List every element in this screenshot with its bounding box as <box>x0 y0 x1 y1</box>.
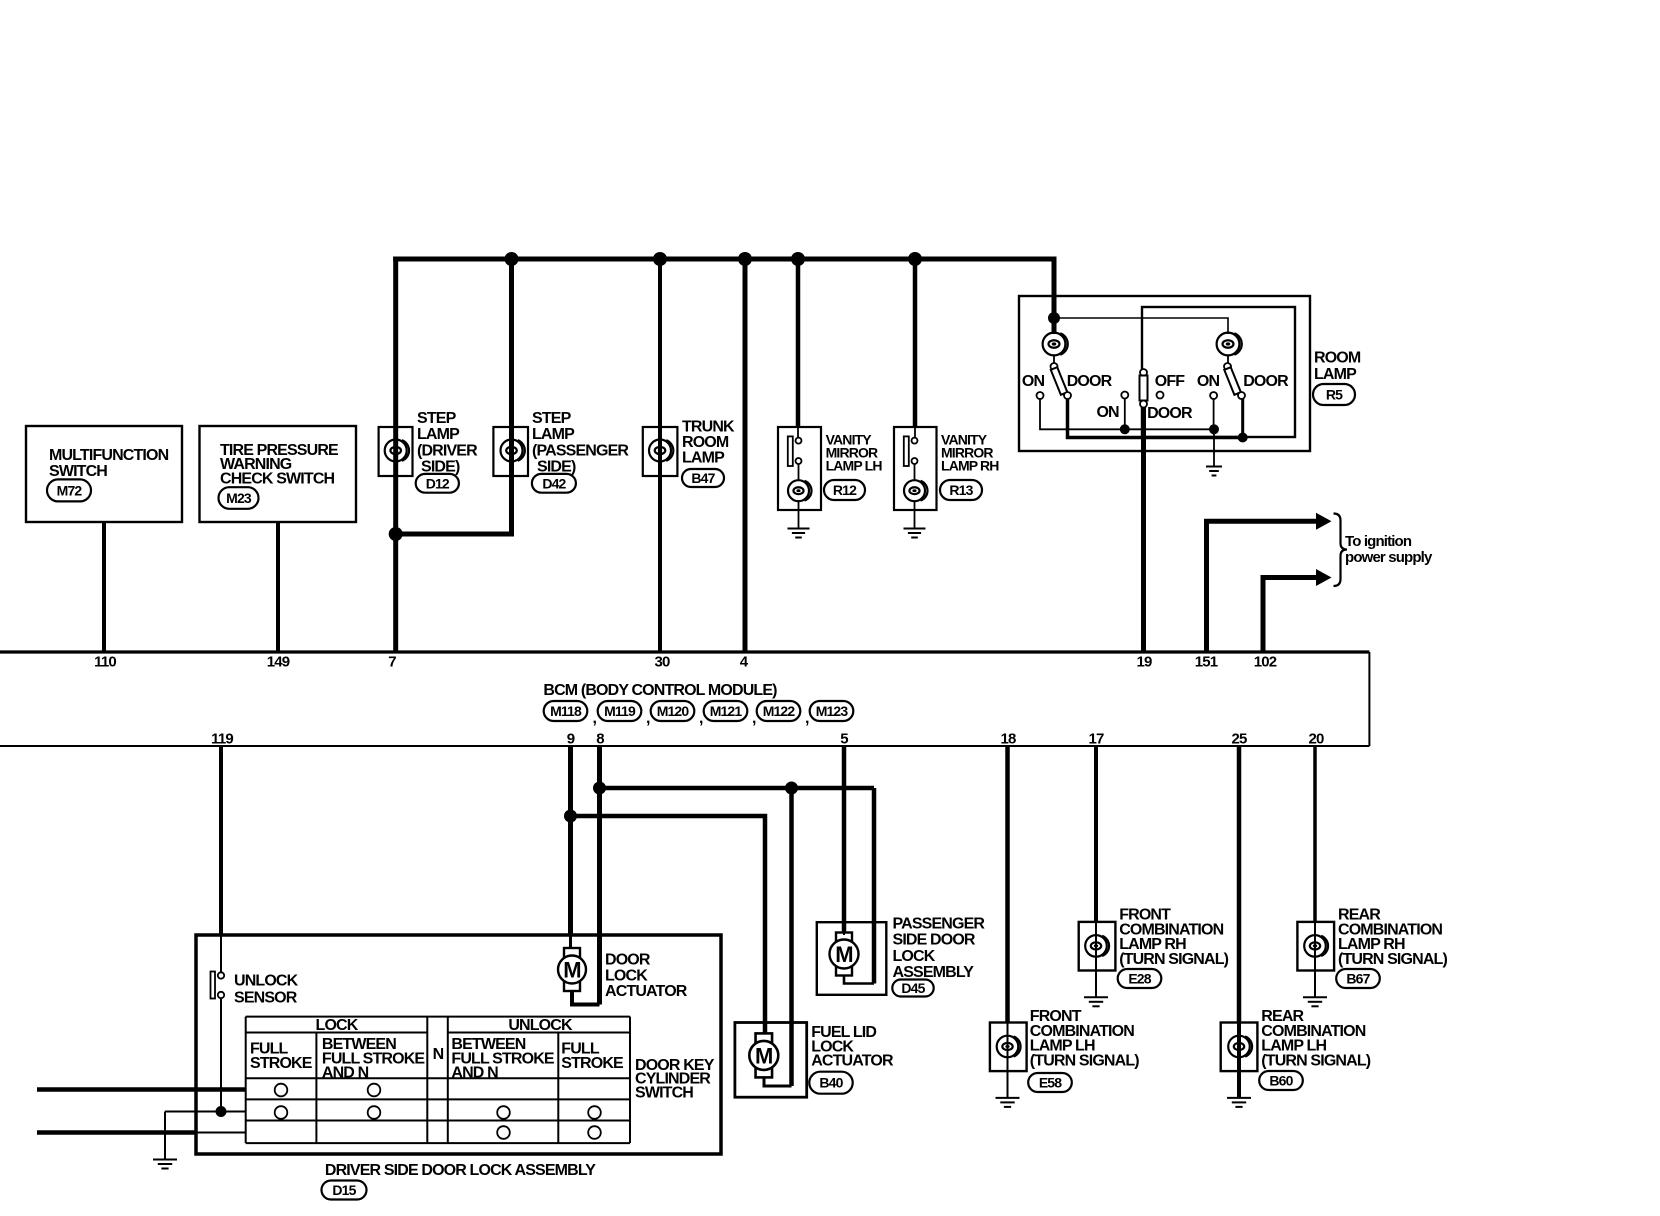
switch contact R12 <box>797 427 799 438</box>
svg-text:To ignition: To ignition <box>1345 533 1412 550</box>
svg-text:LAMP: LAMP <box>1314 366 1357 383</box>
wire B67 to ground <box>1314 971 1316 998</box>
connector label B47 <box>682 469 724 487</box>
wire bus to BCM pin 4 <box>743 257 748 653</box>
svg-text:UNLOCK: UNLOCK <box>234 973 299 990</box>
ground B67 <box>1303 996 1327 998</box>
driver side door lock assembly D15 box <box>196 935 721 1154</box>
switch contact R13 <box>914 427 916 438</box>
lamp bulb R12 <box>788 480 809 501</box>
svg-text:BCM (BODY CONTROL MODULE): BCM (BODY CONTROL MODULE) <box>543 682 777 699</box>
arrowhead ignition 2 <box>1316 569 1332 586</box>
svg-text:DOOR: DOOR <box>605 952 651 969</box>
ground driver door lock <box>153 1159 177 1161</box>
svg-text:,: , <box>752 710 756 727</box>
connector label D12 <box>416 474 459 493</box>
fuel lid motor <box>763 1023 765 1035</box>
svg-text:DOOR: DOOR <box>1067 373 1113 390</box>
wire bus to vanity mirror lamp RH <box>913 257 918 428</box>
wire bus to vanity mirror lamp LH <box>796 257 801 428</box>
svg-text:DRIVER SIDE DOOR LOCK ASSEMBLY: DRIVER SIDE DOOR LOCK ASSEMBLY <box>325 1162 596 1179</box>
wire into unlock sensor <box>220 935 222 972</box>
node junction room lamp feed <box>1048 312 1060 324</box>
wire R13 to ground <box>914 501 916 529</box>
wire BCM pin 151 to ignition power supply <box>1207 521 1318 652</box>
ground R13 <box>904 528 926 530</box>
switch left ON contact <box>1037 392 1044 399</box>
lamp bulb E28 <box>1095 922 1097 971</box>
rear combination lamp RH B67 box <box>1297 922 1334 971</box>
lamp bulb room left <box>1043 333 1066 356</box>
switch middle lever <box>1140 376 1148 401</box>
svg-text:20: 20 <box>1309 731 1324 748</box>
switch right DOOR contact <box>1238 392 1245 399</box>
ground room lamp <box>1206 466 1222 468</box>
svg-text:LAMP: LAMP <box>417 426 460 443</box>
wire room lamp to ground <box>1213 429 1215 466</box>
connector label D15 <box>322 1181 367 1200</box>
switch middle pivot <box>1140 369 1147 376</box>
svg-text:SWITCH: SWITCH <box>635 1084 693 1101</box>
node junction middle ON <box>1120 424 1130 434</box>
svg-text:19: 19 <box>1137 654 1152 671</box>
svg-text:LOCK: LOCK <box>893 948 936 965</box>
svg-text:R12: R12 <box>833 482 857 498</box>
node junction ground rail <box>1209 424 1219 434</box>
BCM body control module band <box>0 650 1369 653</box>
svg-text:CHECK SWITCH: CHECK SWITCH <box>220 470 335 487</box>
svg-text:LAMP: LAMP <box>682 450 725 467</box>
wire BCM to front combination lamp RH E28 <box>1094 746 1098 922</box>
svg-text:M122: M122 <box>763 703 796 719</box>
lamp bulb E58 <box>1007 1023 1009 1072</box>
ground E58 <box>996 1097 1020 1099</box>
svg-text:151: 151 <box>1195 654 1218 671</box>
switch left DOOR contact <box>1064 392 1071 399</box>
wire left bulb to left switch <box>1053 355 1055 363</box>
wire D42 output to junction <box>396 532 512 537</box>
svg-text:(TURN SIGNAL): (TURN SIGNAL) <box>1030 1052 1139 1069</box>
svg-text:B47: B47 <box>691 470 715 486</box>
ground E28 <box>1084 996 1108 998</box>
svg-text:LAMP LH: LAMP LH <box>826 458 883 474</box>
wire E28 to ground <box>1095 971 1097 998</box>
lamp bulb D42 <box>501 440 523 462</box>
svg-text:SWITCH: SWITCH <box>49 463 107 480</box>
svg-text:M23: M23 <box>226 490 252 506</box>
svg-text:102: 102 <box>1254 654 1277 671</box>
room lamp R5 outer box <box>1019 296 1310 451</box>
wire BCM to rear combination lamp RH B67 <box>1313 746 1317 922</box>
node junction D12/D42 outputs <box>389 527 403 541</box>
svg-text:,: , <box>593 710 597 727</box>
wire room lamp to BCM pin 19 <box>1141 408 1146 653</box>
connector label R5 <box>1313 384 1355 405</box>
svg-text:SENSOR: SENSOR <box>234 990 298 1007</box>
front combination lamp RH E28 box <box>1079 922 1116 971</box>
door lock actuator driver <box>568 746 573 936</box>
svg-text:(TURN SIGNAL): (TURN SIGNAL) <box>1338 951 1447 968</box>
svg-text:R5: R5 <box>1326 387 1343 403</box>
node junction bus/B47 <box>653 252 667 266</box>
node junction bus/R13 <box>908 252 922 266</box>
svg-text:B60: B60 <box>1269 1073 1293 1089</box>
switch middle OFF contact <box>1157 392 1164 399</box>
svg-text:AND N: AND N <box>322 1065 369 1082</box>
svg-text:ON: ON <box>1096 404 1119 421</box>
svg-text:M119: M119 <box>604 703 636 719</box>
switch middle bottom contact <box>1140 401 1147 408</box>
svg-text:(PASSENGER: (PASSENGER <box>532 442 629 459</box>
svg-text:7: 7 <box>388 654 396 671</box>
switch right ON contact <box>1210 392 1217 399</box>
svg-text:17: 17 <box>1089 731 1104 748</box>
connector label M123 <box>810 701 854 721</box>
switch left lever <box>1051 367 1068 395</box>
svg-text:,: , <box>646 710 650 727</box>
wire pin8 branch to passenger assembly <box>600 786 875 791</box>
svg-text:LOCK: LOCK <box>316 1017 359 1034</box>
wire BCM to front combination lamp LH E58 <box>1005 746 1010 1023</box>
svg-text:(TURN SIGNAL): (TURN SIGNAL) <box>1119 951 1228 968</box>
connector label M72 <box>47 479 91 501</box>
wire motor return to pin8 branch <box>844 976 874 984</box>
node junction bus/pin4 <box>738 252 752 266</box>
svg-text:DOOR: DOOR <box>1243 373 1289 390</box>
fuel lid lock actuator B40 box <box>735 1023 807 1098</box>
room lamp inner box <box>1142 307 1295 437</box>
connector label M119 <box>598 701 642 721</box>
node junction fuel lid return <box>785 782 798 795</box>
wire row2 feed with ground <box>165 1111 246 1113</box>
wire R12 switch to bulb <box>798 464 800 481</box>
svg-text:,: , <box>805 710 809 727</box>
wire R12 to ground <box>798 501 800 529</box>
svg-text:M72: M72 <box>57 482 83 498</box>
passenger side door lock assembly D45 box <box>817 922 887 995</box>
svg-text:M120: M120 <box>657 703 690 719</box>
door key cylinder switch table <box>246 1016 630 1018</box>
connector label M23 <box>219 487 259 509</box>
svg-text:8: 8 <box>596 731 604 748</box>
connector label D45 <box>892 980 933 997</box>
wire DOOR contacts rail <box>1068 399 1243 438</box>
switch right lever <box>1224 367 1241 395</box>
node junction pin9 branch <box>564 810 577 823</box>
svg-text:D15: D15 <box>332 1182 356 1198</box>
svg-text:(DRIVER: (DRIVER <box>417 442 478 459</box>
ground R12 <box>788 528 810 530</box>
connector label B40 <box>809 1072 852 1094</box>
rear combination lamp LH B60 box <box>1221 1023 1258 1072</box>
connector label M122 <box>757 701 801 721</box>
svg-text:110: 110 <box>94 654 116 671</box>
svg-text:OFF: OFF <box>1155 373 1186 390</box>
svg-text:ON: ON <box>1197 373 1220 390</box>
svg-text:5: 5 <box>840 731 848 748</box>
svg-text:119: 119 <box>211 731 233 748</box>
lamp bulb B60 <box>1237 1023 1241 1072</box>
svg-text:149: 149 <box>267 654 290 671</box>
svg-text:,: , <box>699 710 703 727</box>
wire BCM pin 102 to ignition power supply <box>1263 578 1317 653</box>
wire unlock sensor to table <box>220 998 222 1112</box>
svg-text:M: M <box>755 1043 772 1068</box>
vanity mirror lamp RH R13 box <box>894 427 937 510</box>
wire bus through trunk room lamp B47 to pin 30 <box>658 257 662 653</box>
wire BCM to rear combination lamp LH B60 <box>1237 746 1242 1023</box>
wire bus through step lamp D12 down to pin 7 <box>393 257 398 653</box>
wire lock row1 feed <box>37 1087 246 1092</box>
vanity mirror lamp LH R12 box <box>778 427 821 510</box>
table contact circles <box>275 1084 288 1097</box>
svg-text:ROOM: ROOM <box>1314 350 1361 367</box>
svg-text:R13: R13 <box>949 482 973 498</box>
lamp bulb B67 <box>1314 922 1316 971</box>
node junction bus/R12 <box>791 252 805 266</box>
wire M23 to BCM pin 149 <box>276 522 280 652</box>
lamp bulb R13 <box>904 480 925 501</box>
svg-text:30: 30 <box>655 654 670 671</box>
svg-text:AND N: AND N <box>451 1065 498 1082</box>
svg-text:M121: M121 <box>710 703 743 719</box>
svg-text:E58: E58 <box>1039 1075 1062 1091</box>
svg-text:STROKE: STROKE <box>561 1055 624 1072</box>
svg-text:M: M <box>835 942 852 967</box>
wire B60 to ground <box>1237 1071 1241 1098</box>
door lock motor passenger <box>843 932 845 935</box>
connector label R12 <box>824 480 865 500</box>
step lamp passenger side D42 box <box>493 427 528 476</box>
switch middle ON contact <box>1121 392 1128 399</box>
svg-text:ROOM: ROOM <box>682 434 729 451</box>
multifunction switch M72 box <box>26 426 182 522</box>
switch left pivot <box>1051 363 1058 370</box>
wire room-lamp feed drop <box>1052 257 1057 335</box>
node junction pin8 branch <box>593 782 606 795</box>
wire row3 feed <box>37 1130 196 1135</box>
lamp bulb room right <box>1217 333 1240 356</box>
svg-text:E28: E28 <box>1128 971 1151 987</box>
svg-text:M: M <box>563 957 580 982</box>
connector label M118 <box>544 701 588 721</box>
svg-text:(TURN SIGNAL): (TURN SIGNAL) <box>1261 1052 1370 1069</box>
svg-text:UNLOCK: UNLOCK <box>508 1017 573 1034</box>
connector label B60 <box>1259 1071 1303 1090</box>
svg-text:B67: B67 <box>1346 971 1370 987</box>
svg-text:M118: M118 <box>550 703 582 719</box>
svg-text:ACTUATOR: ACTUATOR <box>605 983 688 1000</box>
svg-text:M123: M123 <box>816 703 849 719</box>
svg-text:ON: ON <box>1022 373 1045 390</box>
connector label B67 <box>1336 969 1380 988</box>
switch right pivot <box>1224 363 1231 370</box>
svg-text:LAMP: LAMP <box>532 426 575 443</box>
svg-text:STEP: STEP <box>417 410 457 427</box>
tire pressure warning check switch M23 box <box>200 426 357 522</box>
wire R13 switch to bulb <box>914 464 916 481</box>
brace ignition <box>1334 514 1348 587</box>
wire room lamp feed to right bulb <box>1054 318 1228 334</box>
wire M72 to BCM pin 110 <box>102 522 106 652</box>
lamp bulb B47 <box>649 440 671 462</box>
svg-text:PASSENGER: PASSENGER <box>893 916 986 933</box>
connector label R13 <box>940 480 982 500</box>
svg-text:SIDE DOOR: SIDE DOOR <box>893 932 976 949</box>
svg-text:STROKE: STROKE <box>250 1055 313 1072</box>
wire right bulb to right switch <box>1227 355 1229 363</box>
svg-text:N: N <box>433 1046 444 1063</box>
svg-text:power supply: power supply <box>1345 549 1433 566</box>
connector label M121 <box>704 701 748 721</box>
svg-text:18: 18 <box>1001 731 1016 748</box>
node junction DOOR rail <box>1238 433 1248 443</box>
ground B60 <box>1227 1097 1251 1099</box>
wire fuel lid return <box>764 1078 792 1087</box>
connector label E58 <box>1028 1073 1072 1092</box>
connector label E28 <box>1118 969 1162 988</box>
wire top power bus <box>393 257 1056 262</box>
svg-text:MULTIFUNCTION: MULTIFUNCTION <box>49 447 169 464</box>
svg-text:STEP: STEP <box>532 410 572 427</box>
front combination lamp LH E58 box <box>990 1023 1027 1072</box>
svg-text:D45: D45 <box>901 980 925 996</box>
trunk room lamp B47 box <box>643 427 678 476</box>
node junction sensor/table row2 <box>216 1106 227 1117</box>
svg-text:B40: B40 <box>819 1075 843 1091</box>
svg-text:LAMP RH: LAMP RH <box>941 458 999 474</box>
wire BCM pin 5 to passenger door lock <box>842 746 847 932</box>
svg-text:D42: D42 <box>542 475 566 491</box>
node junction bus/D42 <box>505 252 519 266</box>
svg-text:9: 9 <box>567 731 575 748</box>
svg-text:DOOR: DOOR <box>1147 405 1193 422</box>
svg-text:TRUNK: TRUNK <box>682 419 735 436</box>
wire E58 to ground <box>1007 1071 1009 1098</box>
wire actuator to pin 8 wire <box>572 991 600 1005</box>
connector label M120 <box>651 701 695 721</box>
svg-text:ACTUATOR: ACTUATOR <box>811 1053 894 1070</box>
wire BCM pin 119 to driver door lock assembly <box>219 746 223 935</box>
wire pin9 branch to fuel lid actuator <box>571 816 766 1033</box>
svg-text:D12: D12 <box>426 475 450 491</box>
wire ON contacts to ground rail <box>1040 399 1214 429</box>
svg-text:25: 25 <box>1232 731 1247 748</box>
unlock sensor <box>211 972 216 999</box>
connector label D42 <box>532 474 576 493</box>
arrowhead ignition 1 <box>1316 513 1332 530</box>
lamp bulb D12 <box>385 440 407 462</box>
step lamp driver side D12 box <box>379 427 413 476</box>
svg-text:LOCK: LOCK <box>605 967 648 984</box>
